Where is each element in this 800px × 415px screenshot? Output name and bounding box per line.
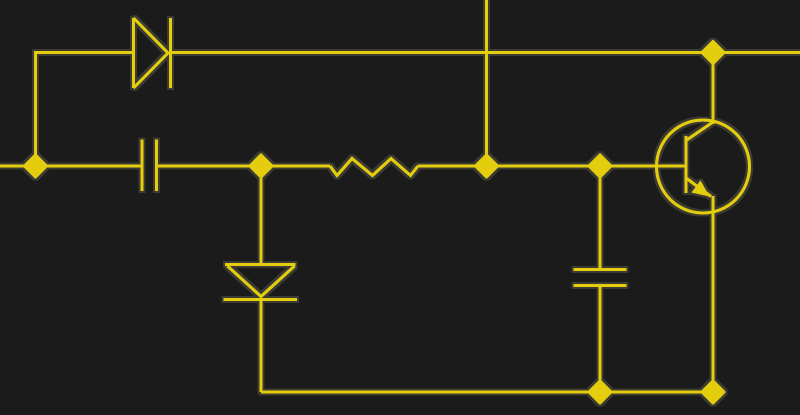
node A junction dot — [25, 155, 47, 177]
node F junction dot — [589, 381, 611, 403]
wire bottom rail — [261, 391, 713, 394]
wire top-left branch — [36, 53, 134, 167]
wire C1 to node B — [157, 165, 331, 168]
wire node D to base — [600, 165, 686, 168]
wire collector rail — [712, 53, 715, 125]
node G junction dot — [702, 381, 724, 403]
capacitor C2 — [574, 270, 627, 286]
wire R1 to node C — [418, 165, 600, 168]
wire vertical rail top x486 — [485, 0, 488, 166]
node B junction dot — [250, 155, 272, 177]
wire node B down to D2 — [260, 166, 263, 265]
wire emitter down — [712, 196, 715, 392]
transistor Q1 — [657, 120, 750, 213]
capacitor C1 — [142, 140, 157, 192]
resistor R1 — [330, 159, 418, 176]
node E junction dot — [702, 42, 724, 64]
diode D2 — [224, 265, 298, 300]
wire node D down to C2 — [599, 166, 602, 270]
node D junction dot — [589, 155, 611, 177]
diode D1 — [134, 18, 171, 88]
wire D1 cathode to top-right node — [171, 51, 800, 54]
wire C2 to bottom rail — [599, 286, 602, 393]
node C junction dot — [476, 155, 498, 177]
wire left input y166 — [0, 165, 142, 168]
wire D2 to bottom rail — [260, 300, 263, 393]
